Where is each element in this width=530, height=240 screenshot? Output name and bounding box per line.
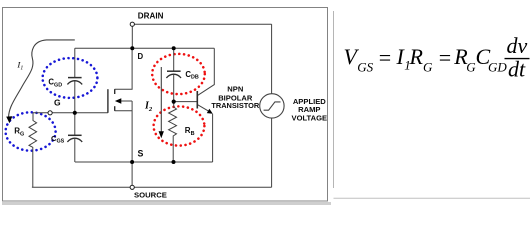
- svg-text:=: =: [379, 45, 391, 70]
- svg-text:=: =: [439, 45, 451, 70]
- svg-text:D: D: [138, 52, 144, 61]
- svg-text:G: G: [423, 59, 433, 74]
- svg-text:TRANSISTOR: TRANSISTOR: [211, 101, 260, 110]
- svg-text:S: S: [138, 148, 144, 158]
- svg-text:SOURCE: SOURCE: [134, 191, 167, 200]
- svg-text:GS: GS: [357, 59, 373, 74]
- svg-text:VOLTAGE: VOLTAGE: [292, 113, 328, 122]
- svg-text:DRAIN: DRAIN: [138, 11, 164, 20]
- svg-text:dt: dt: [508, 57, 526, 82]
- svg-text:dv: dv: [507, 33, 528, 58]
- svg-text:G: G: [54, 97, 61, 107]
- svg-text:NPN: NPN: [227, 85, 243, 94]
- svg-text:GD: GD: [488, 59, 507, 74]
- svg-text:R: R: [409, 44, 424, 69]
